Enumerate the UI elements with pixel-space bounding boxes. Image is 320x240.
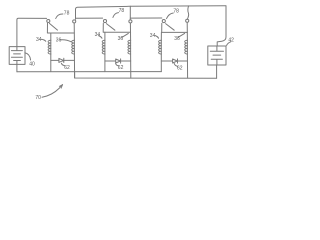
wire S1 to T1 secondary: [73, 23, 75, 40]
wire drop to switch3 right contact (wavy): [187, 6, 188, 19]
wire bus A: [17, 71, 161, 73]
svg-text:70: 70: [35, 95, 41, 101]
svg-text:78: 78: [64, 10, 70, 16]
switch S3 right contact: [186, 19, 189, 22]
wire drop to switch2 right contact: [129, 6, 131, 20]
wire S3 to T3 secondary: [186, 23, 188, 41]
wire T1 secondary bottom to bus B: [73, 54, 75, 78]
wire lower bus segment 1: [17, 18, 47, 46]
switch S1 right contact: [73, 20, 76, 23]
transformer T2 secondary winding 36: [130, 40, 132, 54]
leader for label 36 (T2): [122, 33, 129, 37]
wire S3 to T3 primary: [162, 23, 188, 32]
switch S3 blade: [166, 24, 175, 31]
wire S2 to T2 secondary: [129, 23, 131, 40]
wire lower bus segment 3: [130, 17, 162, 19]
svg-text:36: 36: [118, 36, 124, 42]
transformer T2 primary winding 34: [104, 40, 106, 54]
diode D2: [116, 59, 121, 63]
switch S1 left contact: [47, 19, 50, 22]
leader for label 62 (D2): [116, 63, 119, 65]
leader for label 78 (S1): [56, 14, 63, 19]
battery plates in box 42: [210, 46, 223, 65]
svg-text:40: 40: [29, 61, 35, 67]
transformer T1 primary winding 34: [50, 40, 52, 54]
leader for label 34 (T1): [42, 39, 46, 41]
diode D2 wire: [105, 60, 131, 62]
svg-text:62: 62: [177, 66, 183, 72]
wire T2 secondary bottom to bus B: [130, 54, 132, 78]
leader for label 42: [227, 42, 231, 46]
leader for label 34 (T2): [99, 36, 103, 39]
switch S2 left contact: [103, 20, 106, 23]
wire box 42 bottom to bus B: [216, 65, 218, 78]
arrow for label 70: [42, 85, 63, 98]
wire upper bus: [76, 6, 227, 19]
svg-text:34: 34: [150, 33, 156, 39]
wire T2 primary bottom to bus A: [104, 54, 106, 72]
source box 40: [9, 47, 25, 65]
leader for label 34 (T3): [155, 36, 158, 39]
svg-text:78: 78: [173, 9, 179, 15]
transformer T3 primary winding 34: [160, 40, 162, 54]
svg-text:36: 36: [56, 37, 62, 43]
svg-text:62: 62: [64, 65, 70, 71]
svg-text:34: 34: [36, 37, 42, 43]
svg-text:34: 34: [95, 32, 101, 38]
wire T3 primary bottom to bus A: [160, 54, 162, 72]
load box 42: [208, 46, 226, 65]
leader for label 78 (S2): [113, 13, 119, 18]
battery plates in box 40: [11, 47, 22, 65]
svg-text:62: 62: [118, 65, 124, 71]
switch S1 blade: [49, 23, 57, 30]
leader for label 36 (T1): [61, 40, 72, 42]
transformer T1 secondary winding 36: [73, 40, 75, 54]
switch S2 right contact: [129, 20, 132, 23]
wire box 40 bottom to bus A: [16, 64, 18, 71]
transformer T3 secondary winding 36: [186, 40, 188, 54]
wire lower bus segment 2: [76, 17, 103, 19]
svg-text:42: 42: [228, 37, 234, 43]
switch S2 blade: [106, 24, 115, 31]
leader for label 36 (T3): [178, 33, 184, 37]
leader for label 78 (S3): [167, 13, 174, 19]
wire T1 primary bottom to bus A: [50, 54, 52, 72]
wire S2 to T2 primary: [103, 23, 130, 32]
diode D1: [59, 58, 64, 62]
leader for label 40: [25, 53, 31, 60]
switch S3 left contact: [162, 20, 165, 23]
leader for label 62 (D3): [174, 63, 178, 66]
wire upper bus right drop to load: [217, 6, 226, 46]
svg-text:78: 78: [119, 8, 125, 14]
diode D3: [173, 59, 178, 63]
leader for label 62 (D1): [61, 63, 64, 65]
wire S1 to T1 primary: [47, 23, 74, 33]
diode D1 wire: [51, 59, 75, 61]
wire T3 secondary bottom to bus B: [186, 54, 188, 78]
diode D3 wire: [161, 60, 187, 62]
svg-text:36: 36: [174, 36, 180, 42]
wire bus B: [75, 72, 217, 79]
